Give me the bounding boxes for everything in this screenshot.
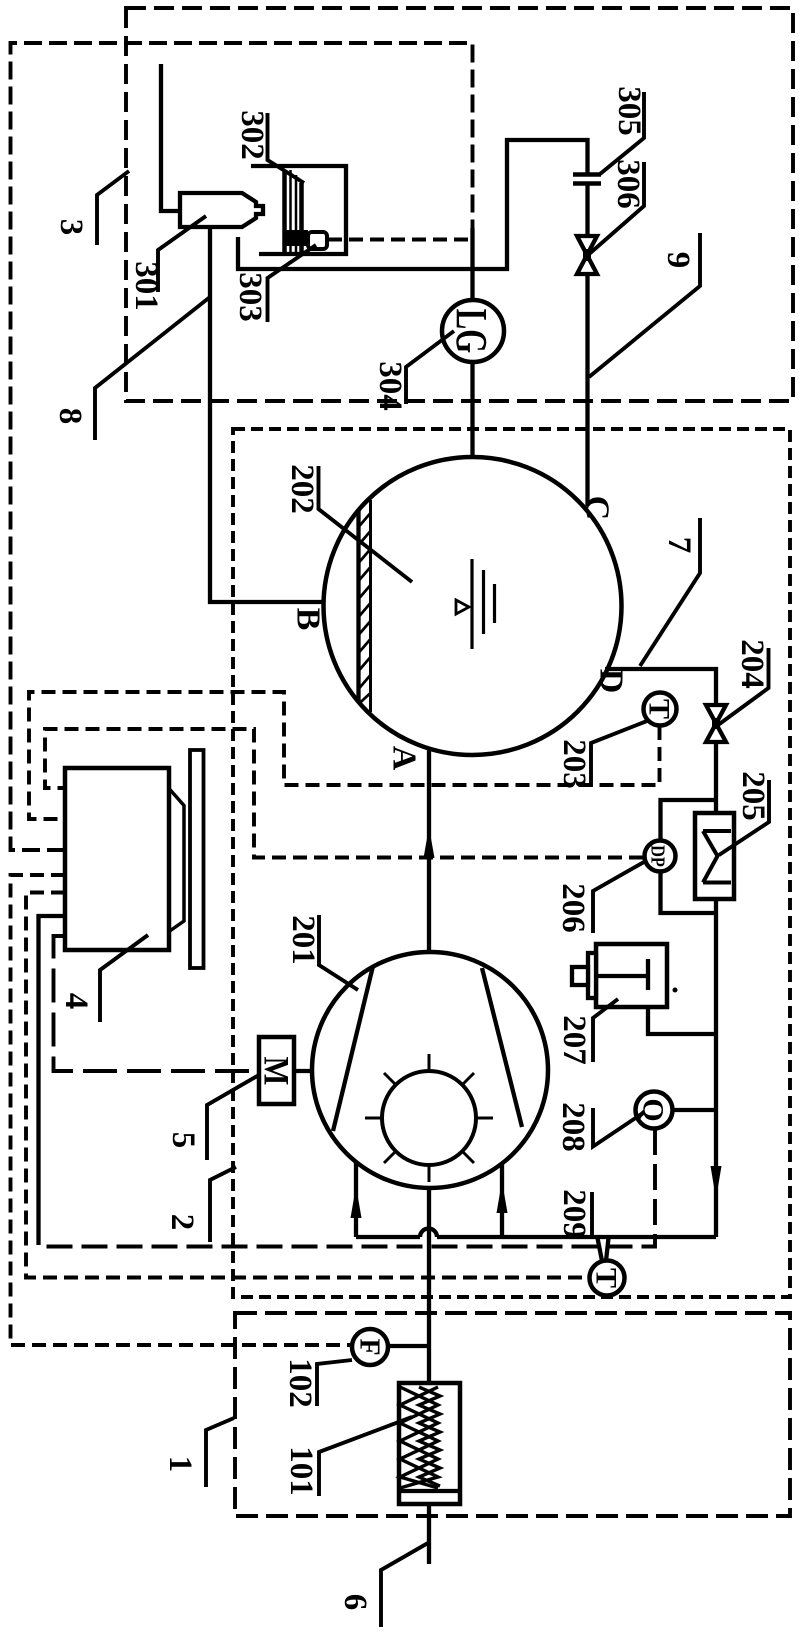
leader label 201: [319, 915, 358, 990]
svg-text:102: 102: [282, 1358, 318, 1408]
flowmeter F 102: [352, 1329, 388, 1365]
leader label 8: [95, 297, 210, 440]
svg-text:205: 205: [735, 771, 771, 821]
wire return pipe to suction manifold: [437, 1235, 716, 1239]
leader label 1: [206, 1418, 234, 1487]
differential pressure DP 206: [645, 841, 676, 872]
svg-text:202: 202: [284, 464, 320, 514]
level gauge LG 304: [442, 300, 504, 362]
valve 204: [706, 705, 726, 724]
wire LG to tank top: [470, 362, 474, 458]
leader label 302: [268, 113, 305, 183]
fan 201 casing chords: [333, 966, 373, 1131]
leader label 209: [590, 1192, 594, 1237]
svg-text:206: 206: [555, 883, 591, 933]
arrow up on left suction pipe: [351, 1186, 362, 1218]
svg-text:5: 5: [165, 1132, 201, 1149]
filter 101 spring mesh: [400, 1387, 440, 1488]
svg-text:101: 101: [283, 1446, 319, 1496]
leader label 303: [268, 245, 317, 322]
dashed path 8 (control loop boundary to heater 302/303): [11, 43, 473, 850]
svg-text:208: 208: [555, 1102, 591, 1152]
leader label 9: [589, 233, 700, 377]
leader label 203: [591, 721, 647, 787]
enclosure box of atomizer 302: [251, 166, 346, 254]
leader label 304: [406, 331, 454, 404]
leader label 4: [100, 935, 148, 1022]
damper actuator 207: [596, 944, 667, 1007]
svg-text:3: 3: [53, 219, 89, 236]
wire steam pipe from tray to valve line: [238, 140, 588, 269]
control line Q208 dashed part: [39, 1129, 656, 1247]
wire DP bypass upper tap: [661, 800, 717, 841]
CONTROL-LINES: [11, 240, 660, 1346]
svg-text:306: 306: [610, 159, 646, 209]
svg-text:2: 2: [164, 1214, 200, 1231]
svg-text:304: 304: [372, 361, 408, 411]
leader label 206: [593, 862, 644, 933]
leader label 7: [640, 518, 700, 666]
wire LG upper stem: [470, 228, 474, 301]
heating element 303 (black cartridge): [283, 230, 308, 246]
svg-text:8: 8: [52, 408, 88, 425]
wire C pipe from valve 306 down to tank port C: [585, 274, 589, 506]
control line T209 to controller 4: [26, 893, 589, 1278]
svg-text:C: C: [579, 496, 616, 521]
speaker panel bar of 4: [190, 750, 204, 968]
svg-text:B: B: [290, 608, 327, 631]
svg-text:302: 302: [234, 110, 270, 160]
control line T203 to controller 4: [29, 692, 660, 819]
wire left suction pipe: [354, 1162, 358, 1237]
heating element 303 plug: [308, 232, 327, 249]
svg-text:6: 6: [337, 1594, 373, 1611]
arrow down on return pipe: [711, 1166, 722, 1199]
baffle 202 inside tank (hatched strip): [356, 510, 360, 702]
wire exchanger to 207 junction: [714, 899, 718, 1237]
heater 301 (bullet-shaped generator body): [180, 193, 263, 227]
leader label 6: [381, 1543, 428, 1627]
svg-text:4: 4: [58, 993, 94, 1010]
speaker cone of 4: [169, 789, 184, 932]
wire A pipe tank to fan: [427, 750, 431, 953]
thermometer T 209: [590, 1261, 625, 1296]
svg-text:1: 1: [162, 1456, 198, 1473]
control line F102 to controller 4: [11, 875, 353, 1345]
LEADERS: [95, 92, 769, 1627]
wire vent pipe into heater 301: [161, 64, 180, 211]
svg-text:201: 201: [285, 915, 321, 965]
svg-text:DP: DP: [647, 845, 669, 867]
svg-text:207: 207: [556, 1015, 592, 1065]
control line Q208 solid riser to controller 4: [39, 916, 66, 1245]
wire between capacitor 305 and valve 306: [585, 184, 589, 236]
control line M motor to controller 4: [54, 936, 260, 1071]
wire supply pipe from fan bottom to filter: [427, 1188, 431, 1383]
svg-text:305: 305: [611, 86, 647, 136]
leader label 306: [588, 162, 644, 255]
svg-text:204: 204: [734, 639, 770, 689]
wire F branch: [388, 1344, 429, 1348]
wire manifold left part: [356, 1235, 420, 1239]
heat exchanger 205: [695, 813, 734, 899]
filter 101: [399, 1383, 460, 1504]
wire Q branch: [673, 1108, 717, 1112]
atomizer plates 302: [282, 170, 287, 252]
svg-text:LG: LG: [447, 309, 496, 353]
dashed box 1 (inlet subsystem boundary): [235, 1313, 790, 1516]
motor shaft: [294, 1069, 312, 1073]
leader label 3: [97, 171, 129, 245]
svg-text:Q: Q: [637, 1098, 670, 1121]
wire valve 204 to exchanger: [714, 742, 718, 813]
wire supply pipe below filter (inlet 6): [427, 1504, 431, 1564]
leader label 2: [210, 1167, 236, 1242]
flow sensor Q 208: [636, 1092, 673, 1129]
fan 201 (centrifugal fan circle): [312, 952, 548, 1188]
wire manifold hop over supply pipe: [420, 1229, 437, 1238]
leader label 205: [719, 780, 769, 855]
wire DP bypass lower tap: [661, 872, 717, 914]
svg-text:203: 203: [556, 739, 592, 789]
leader label 207: [593, 999, 618, 1062]
leader label 305: [600, 92, 644, 174]
leader label 208: [593, 1108, 643, 1147]
svg-text:9: 9: [660, 252, 696, 269]
tank 202 (water tank circle): [324, 457, 622, 755]
wire right suction pipe: [500, 1163, 504, 1237]
leader label 301: [158, 216, 206, 292]
controller 4 (signal unit with speaker): [65, 768, 169, 950]
dashed box 3 (steam generator subsystem boundary): [126, 8, 793, 401]
wire 207 outlet branch: [648, 1007, 716, 1034]
fan 201 hub spokes: [365, 1054, 493, 1182]
leader label 102: [317, 1360, 352, 1406]
arrow up on A pipe: [424, 827, 435, 858]
wire B pipe from tank to heater bottom: [210, 227, 322, 602]
motor M box 5: [259, 1037, 294, 1104]
svg-text:T: T: [590, 1268, 623, 1288]
svg-text:301: 301: [128, 261, 164, 311]
leader label 5: [207, 1075, 259, 1160]
svg-text:D: D: [593, 669, 630, 694]
control line DP to controller 4: [45, 729, 643, 858]
thermometer T 203: [644, 693, 677, 726]
svg-text:T: T: [643, 699, 676, 719]
water level mark inside tank: [472, 559, 495, 649]
leader label 204: [718, 648, 769, 725]
svg-text:M: M: [256, 1057, 296, 1086]
svg-text:F: F: [354, 1338, 385, 1355]
wire D pipe from tank to valve 204: [605, 669, 716, 705]
valve 306: [577, 236, 597, 255]
svg-text:209: 209: [556, 1189, 592, 1239]
leader label 202: [319, 466, 413, 582]
fan 201 hub: [382, 1071, 476, 1165]
leader label 101: [319, 1417, 412, 1496]
svg-text:A: A: [386, 746, 423, 771]
capacitor plates 305 (steam outlet fitting): [573, 172, 601, 177]
svg-text:7: 7: [661, 537, 697, 554]
svg-text:303: 303: [232, 272, 268, 322]
arrow up on right suction pipe: [497, 1181, 508, 1213]
control line branch to heating element 303: [328, 238, 473, 242]
wire T209 connector lines: [598, 1238, 603, 1261]
dashed box 2 (fan/tank subsystem boundary): [233, 429, 790, 1297]
